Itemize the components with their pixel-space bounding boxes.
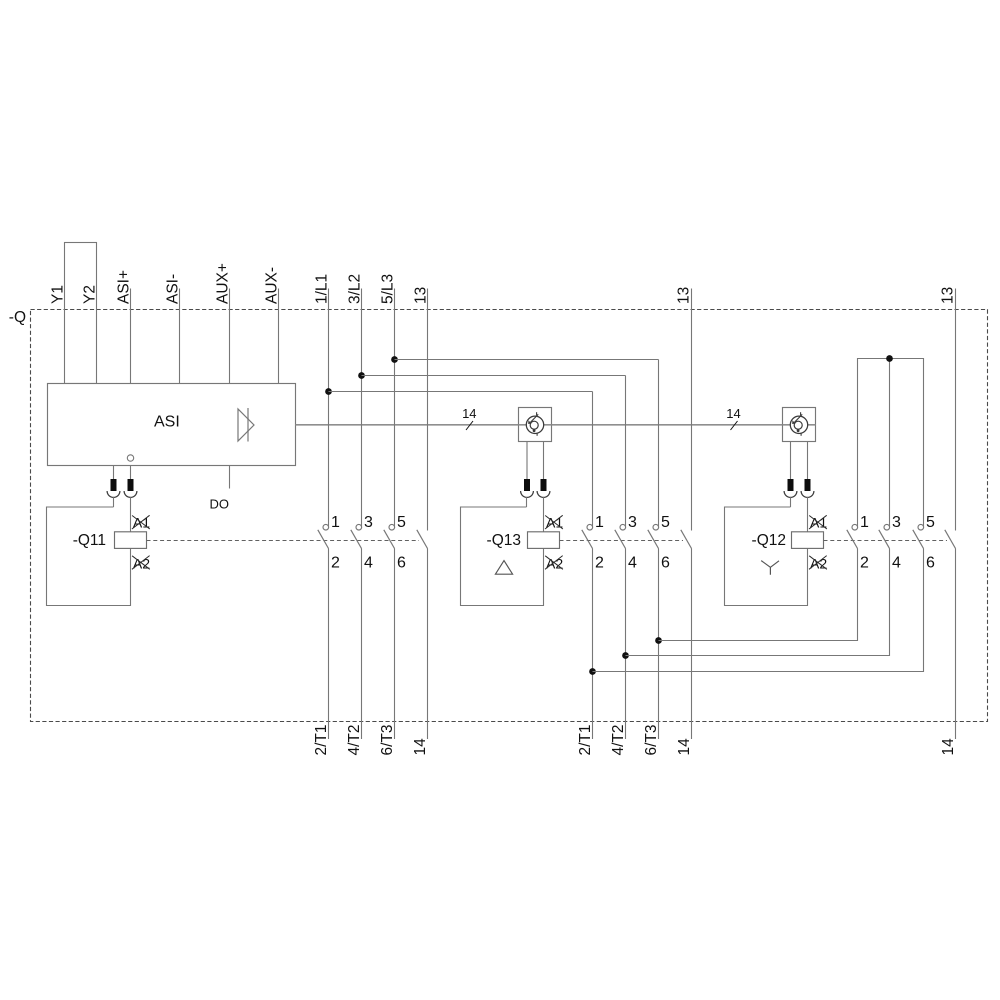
label -Q — [9, 309, 26, 326]
svg-text:4: 4 — [364, 555, 373, 572]
amplifier/output triangle symbol — [238, 408, 254, 442]
svg-text:6/T3: 6/T3 — [643, 724, 660, 755]
contact -Q13 pole 2 — [615, 514, 637, 572]
delta symbol of -Q13 — [495, 561, 512, 575]
svg-text:DO: DO — [210, 497, 230, 512]
jumper bridge Y1-Y2 — [65, 243, 97, 384]
star point bridge wire of -Q12 — [858, 359, 924, 529]
svg-text:-Q12: -Q12 — [752, 532, 786, 549]
terminal label AUX- — [264, 267, 281, 304]
svg-text:14: 14 — [726, 406, 740, 421]
load line 6/T3 lower — [379, 549, 396, 756]
contact -Q11 pole 2 — [351, 514, 373, 572]
svg-text:5/L3: 5/L3 — [380, 274, 397, 304]
svg-text:2/T1: 2/T1 — [313, 724, 330, 755]
aux line 13 (-Q13) upper — [676, 287, 693, 531]
wire marker 14 (right) — [726, 406, 740, 430]
load line 2/T1 (-Q13) lower — [577, 549, 594, 756]
plug pin Q11 right (A1 circuit) — [124, 466, 137, 498]
contact -Q12 pole 1 — [847, 514, 869, 572]
svg-text:2/T1: 2/T1 — [577, 724, 594, 755]
contactor coil -Q13 — [461, 497, 564, 605]
label DO — [210, 497, 230, 512]
svg-text:ASI: ASI — [154, 414, 180, 431]
svg-text:6: 6 — [926, 555, 935, 572]
wire -Q12 pole 3 to delta line — [593, 549, 924, 672]
contact -Q13 pole 3 — [648, 514, 670, 572]
node junction lower on 6/T3 — [655, 637, 662, 644]
terminal wire AUX+ — [229, 289, 231, 384]
svg-text:14: 14 — [412, 738, 429, 756]
terminal label Y2 — [82, 285, 99, 304]
contact -Q11 pole 1 — [318, 514, 340, 572]
svg-text:6: 6 — [397, 555, 406, 572]
svg-text:Y1: Y1 — [50, 285, 67, 304]
aux line 14 (-Q13) lower — [676, 549, 693, 756]
terminal wire ASI+ — [130, 289, 132, 384]
aux line 13 (-Q12) upper — [940, 287, 957, 531]
DO output stub — [229, 466, 231, 489]
supply line 1/L1 upper — [314, 274, 331, 528]
contact -Q11 pole 3 — [384, 514, 406, 572]
svg-text:1: 1 — [860, 514, 869, 531]
contactor coil -Q12 — [725, 497, 828, 605]
svg-text:3: 3 — [892, 514, 901, 531]
svg-text:13: 13 — [940, 287, 957, 304]
terminal wire AUX- — [278, 289, 280, 384]
svg-text:-Q: -Q — [9, 309, 26, 326]
svg-text:1: 1 — [331, 514, 340, 531]
supply line 5/L3 upper — [380, 274, 397, 528]
svg-text:13: 13 — [413, 287, 430, 304]
svg-text:1: 1 — [595, 514, 604, 531]
node junction on 1/L1 — [325, 388, 332, 395]
contact -Q13 pole 1 — [582, 514, 604, 572]
svg-text:ASI+: ASI+ — [116, 270, 133, 304]
terminal label ASI- — [165, 274, 182, 304]
svg-text:13: 13 — [676, 287, 693, 304]
svg-text:6: 6 — [661, 555, 670, 572]
load line 6/T3 (-Q13) lower — [643, 549, 660, 756]
branch wire 1/L1 to -Q13 pole 1 — [329, 392, 593, 529]
aux line 14 (-Q12) lower — [940, 549, 957, 756]
node junction lower on 4/T2 — [622, 652, 629, 659]
svg-text:4/T2: 4/T2 — [346, 724, 363, 755]
contact -Q12 pole 2 — [879, 514, 901, 572]
aux contact circuit wire 14 from ASI — [296, 424, 816, 426]
supply line 3/L2 upper — [347, 274, 364, 528]
aux line 14 (-Q11) lower — [412, 549, 429, 756]
node junction lower on 2/T1 — [589, 668, 596, 675]
terminal label Y1 — [50, 285, 67, 304]
svg-text:3: 3 — [628, 514, 637, 531]
star symbol of -Q12 — [761, 561, 779, 575]
svg-text:5: 5 — [397, 514, 406, 531]
node junction on 5/L3 — [391, 356, 398, 363]
terminal label AUX+ — [215, 263, 232, 304]
rotary drive symbol for -Q13 — [519, 408, 552, 442]
svg-text:2: 2 — [331, 555, 340, 572]
branch wire 3/L2 to -Q13 pole 3 — [362, 376, 626, 529]
svg-text:-Q13: -Q13 — [487, 532, 521, 549]
mechanical linkage -Q11 — [147, 540, 420, 542]
svg-text:3/L2: 3/L2 — [347, 274, 364, 304]
label ASI — [154, 414, 180, 431]
plug pin Q12 right — [801, 442, 814, 498]
svg-text:4/T2: 4/T2 — [610, 724, 627, 755]
aux contact -Q12 13-14 — [945, 530, 956, 549]
svg-text:ASI-: ASI- — [165, 274, 182, 304]
plug pin Q13 right — [537, 442, 550, 498]
svg-text:14: 14 — [462, 406, 476, 421]
contact -Q12 pole 3 — [913, 514, 935, 572]
svg-text:3: 3 — [364, 514, 373, 531]
svg-text:5: 5 — [661, 514, 670, 531]
plug pin Q11 left (A2 circuit) — [107, 466, 120, 498]
load line 4/T2 lower — [346, 549, 363, 756]
wire -Q12 pole 2 to delta line — [626, 549, 890, 656]
svg-text:AUX+: AUX+ — [215, 263, 232, 304]
node junction on 3/L2 — [358, 372, 365, 379]
terminal wire ASI- — [179, 289, 181, 384]
wire marker 14 (left) — [462, 406, 476, 430]
mechanical linkage -Q12 — [824, 540, 948, 542]
aux line 13 (-Q11) upper — [413, 287, 430, 531]
contactor coil -Q11 — [47, 497, 151, 605]
svg-text:2: 2 — [595, 555, 604, 572]
aux contact -Q11 13-14 — [417, 530, 428, 549]
terminal label ASI+ — [116, 270, 133, 304]
svg-text:5: 5 — [926, 514, 935, 531]
svg-text:14: 14 — [940, 738, 957, 756]
aux contact -Q13 13-14 — [681, 530, 692, 549]
svg-text:4: 4 — [628, 555, 637, 572]
svg-text:4: 4 — [892, 555, 901, 572]
node junction star point — [886, 355, 893, 362]
plug pin Q12 left — [784, 442, 797, 498]
indicator circle on A1 output — [127, 455, 133, 461]
mechanical linkage -Q13 — [560, 540, 684, 542]
svg-text:AUX-: AUX- — [264, 267, 281, 304]
branch wire 5/L3 to -Q13 pole 5 — [395, 360, 659, 529]
wire -Q12 pole 1 to delta line — [659, 549, 858, 641]
svg-text:6/T3: 6/T3 — [379, 724, 396, 755]
rotary drive symbol for -Q12 — [783, 408, 816, 442]
svg-text:14: 14 — [676, 738, 693, 756]
svg-text:-Q11: -Q11 — [73, 532, 106, 549]
plug pin Q13 left — [521, 442, 534, 498]
svg-text:Y2: Y2 — [82, 285, 99, 304]
AS-i module U1 box — [48, 384, 296, 466]
enclosure dashed boundary box -Q — [31, 310, 988, 722]
load line 2/T1 lower — [313, 549, 330, 756]
svg-text:1/L1: 1/L1 — [314, 274, 331, 304]
svg-text:2: 2 — [860, 555, 869, 572]
load line 4/T2 (-Q13) lower — [610, 549, 627, 756]
